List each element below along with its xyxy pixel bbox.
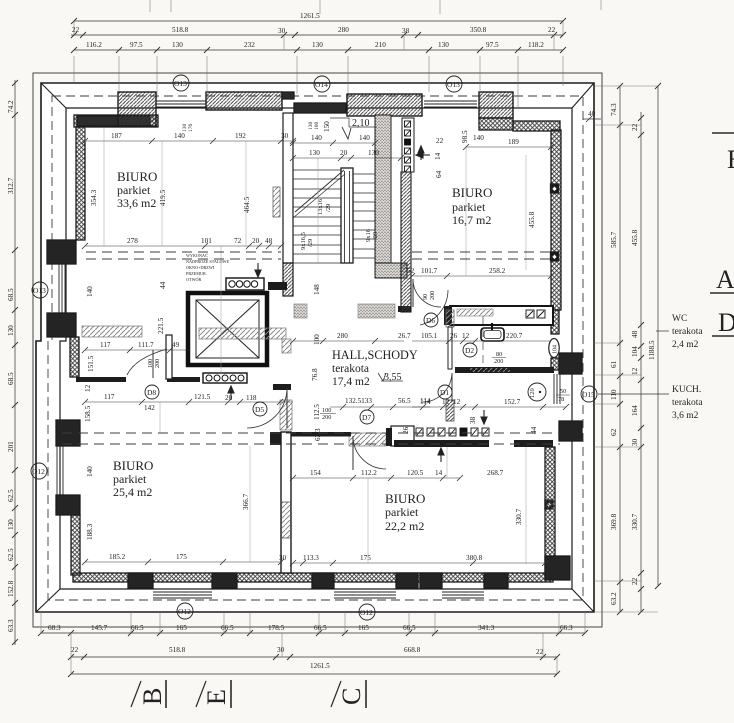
circle O13 left xyxy=(32,282,48,298)
svg-text:terakota: terakota xyxy=(672,398,703,408)
svg-text:165: 165 xyxy=(176,624,187,632)
right wall R2 hatch xyxy=(551,130,561,310)
right extension stubs xyxy=(594,86,658,612)
wall stub east part (under elevator) xyxy=(167,377,200,382)
svg-text:22: 22 xyxy=(436,137,444,145)
right wall anchor dot 3 (R5) xyxy=(545,500,553,509)
wall top of room R2 (hatched) xyxy=(513,121,560,131)
svg-text:38: 38 xyxy=(402,27,410,35)
landing wall gray hatch block xyxy=(294,304,307,318)
svg-text:154: 154 xyxy=(310,469,321,477)
svg-text:63.3: 63.3 xyxy=(7,619,15,632)
hall vertical dashed line xyxy=(482,316,484,367)
divider hatch window block xyxy=(282,502,291,538)
svg-text:BIURO: BIURO xyxy=(113,458,153,473)
svg-text:40: 40 xyxy=(588,110,596,118)
bottom dimension labels xyxy=(48,624,573,670)
svg-text:BIURO: BIURO xyxy=(117,169,157,184)
svg-text:120: 120 xyxy=(529,388,536,398)
svg-text:232: 232 xyxy=(244,41,255,49)
small renovation note text xyxy=(186,253,229,282)
bottom row1 line xyxy=(41,632,585,634)
svg-text:68.5: 68.5 xyxy=(7,288,15,301)
hall south-west wall segment xyxy=(270,432,291,445)
svg-text:105.1: 105.1 xyxy=(421,332,438,340)
svg-text:44: 44 xyxy=(159,281,167,289)
svg-text:O12: O12 xyxy=(178,607,191,616)
circle O13 top-left xyxy=(173,75,189,91)
drawing frame xyxy=(33,73,602,627)
wall above D5 door xyxy=(273,384,291,390)
svg-text:parkiet: parkiet xyxy=(385,505,419,519)
landing south wall stub dark xyxy=(268,282,287,290)
svg-text:1261.5: 1261.5 xyxy=(300,12,320,20)
wall R4/R5 divider xyxy=(281,432,291,573)
svg-text:63.2: 63.2 xyxy=(610,592,618,605)
top-right 40 dim xyxy=(583,110,601,122)
svg-text:68.5: 68.5 xyxy=(7,372,15,385)
stairwell west wall (double line) xyxy=(283,113,293,263)
svg-text:D: D xyxy=(718,308,734,337)
partial letter top xyxy=(712,132,734,134)
svg-text:130: 130 xyxy=(172,41,183,49)
window left W3 glazing xyxy=(59,264,65,313)
circle O15 right xyxy=(581,386,597,402)
svg-text:140: 140 xyxy=(311,134,322,142)
svg-text:80: 80 xyxy=(496,351,502,358)
kitchen west hatch pier xyxy=(446,310,454,327)
svg-text:O14: O14 xyxy=(315,80,328,89)
svg-text:192: 192 xyxy=(235,132,246,140)
stair level mark 2,10 xyxy=(330,118,377,139)
right col3 line xyxy=(657,86,659,586)
svg-text:22: 22 xyxy=(71,646,79,654)
door D5 arc xyxy=(247,388,287,428)
door D8 arc xyxy=(127,349,167,375)
svg-text:1261.5: 1261.5 xyxy=(310,662,330,670)
svg-text:E: E xyxy=(202,689,231,705)
svg-text:158.5: 158.5 xyxy=(84,405,92,422)
top row2 line xyxy=(71,34,563,36)
sill block top-left dark xyxy=(77,116,150,126)
svg-text:152.8: 152.8 xyxy=(7,580,15,597)
svg-text:22: 22 xyxy=(548,26,556,34)
top extension stubs xyxy=(74,0,601,108)
svg-text:WC: WC xyxy=(672,314,687,324)
svg-text:A: A xyxy=(716,265,734,294)
landing wall gray hatch block east xyxy=(358,304,395,318)
svg-text:464.5: 464.5 xyxy=(243,196,251,213)
hall south wall near D7 xyxy=(291,432,351,437)
svg-text:26.7: 26.7 xyxy=(398,332,411,340)
svg-text:PRZEMUR.: PRZEMUR. xyxy=(186,271,207,276)
lintel tiny labels above stairs xyxy=(182,122,320,133)
chimney pier P3 xyxy=(479,92,513,118)
circle O13b top-right xyxy=(446,76,462,92)
svg-text:140: 140 xyxy=(86,286,94,297)
svg-text:90: 90 xyxy=(422,294,429,300)
svg-text:178.5: 178.5 xyxy=(268,624,285,632)
svg-text:118: 118 xyxy=(246,394,257,402)
R2 south wall hatch strip xyxy=(457,309,493,316)
svg-text:D5: D5 xyxy=(255,405,264,414)
svg-text:22: 22 xyxy=(631,577,639,585)
wall top of room R1 (hatched) xyxy=(74,115,158,127)
right wall anchor dot 2 xyxy=(551,252,559,261)
corner miter BL xyxy=(36,589,60,612)
svg-text:O12: O12 xyxy=(360,608,373,617)
svg-text:D6: D6 xyxy=(426,316,435,325)
D7 threshold grey bar xyxy=(349,433,386,446)
right wall anchor dot 1 xyxy=(551,184,559,193)
svg-text:101.7: 101.7 xyxy=(421,267,438,275)
svg-text:312.7: 312.7 xyxy=(7,177,15,194)
svg-text:/29: /29 xyxy=(325,204,332,212)
R2 south wall xyxy=(450,306,553,325)
svg-text:26: 26 xyxy=(450,332,458,340)
washbasin xyxy=(481,328,504,341)
svg-text:200: 200 xyxy=(154,359,161,368)
svg-text:33,6 m2: 33,6 m2 xyxy=(117,196,156,210)
svg-text:22: 22 xyxy=(72,26,80,34)
svg-text:188.3: 188.3 xyxy=(86,523,94,540)
circle O12 bottom-right xyxy=(359,604,375,620)
right col1 line xyxy=(619,86,621,612)
WC label (right margin) xyxy=(672,314,703,350)
left arrow at stair top xyxy=(416,152,430,158)
svg-text:/29: /29 xyxy=(372,232,379,240)
svg-text:118.2: 118.2 xyxy=(528,41,544,49)
right window WR glazing xyxy=(554,374,560,404)
svg-text:518.8: 518.8 xyxy=(172,26,189,34)
svg-text:/29: /29 xyxy=(307,239,314,247)
svg-text:258.2: 258.2 xyxy=(489,267,506,275)
outer wall band: inner edge xyxy=(60,108,572,589)
svg-text:280: 280 xyxy=(337,332,348,340)
svg-text:HALL,SCHODY: HALL,SCHODY xyxy=(332,348,418,362)
hall south dim line xyxy=(330,406,430,408)
KUCH label (right margin) xyxy=(672,385,703,421)
bottom sill blocks xyxy=(128,573,153,588)
svg-text:341.3: 341.3 xyxy=(478,624,495,632)
svg-text:1188.5: 1188.5 xyxy=(648,340,656,360)
radiator strip R1 east wall xyxy=(273,187,280,217)
middle strip dim line xyxy=(85,401,293,403)
right window WR sill lower xyxy=(559,421,582,441)
R2 bottom dim line xyxy=(412,275,551,277)
svg-text:130: 130 xyxy=(438,41,449,49)
svg-text:O13: O13 xyxy=(447,80,460,89)
svg-text:terakota: terakota xyxy=(332,363,369,375)
svg-text:12: 12 xyxy=(631,367,639,375)
svg-text:369.8: 369.8 xyxy=(610,513,618,530)
svg-text:140: 140 xyxy=(473,134,484,142)
svg-text:74.2: 74.2 xyxy=(7,100,15,113)
R5 north wall xyxy=(394,440,553,447)
window left W4 glazing xyxy=(57,446,63,495)
svg-text:66.3: 66.3 xyxy=(560,624,573,632)
svg-text:200: 200 xyxy=(429,291,436,300)
svg-text:52: 52 xyxy=(407,267,415,275)
svg-text:D1: D1 xyxy=(440,388,449,397)
svg-text:30: 30 xyxy=(279,554,287,562)
door D1 arc xyxy=(423,373,452,402)
svg-text:100: 100 xyxy=(314,122,320,131)
svg-text:220.7: 220.7 xyxy=(506,332,523,340)
svg-text:72: 72 xyxy=(234,237,242,245)
stairwell west wall lower extension xyxy=(283,263,293,296)
WC dim line xyxy=(412,340,551,342)
svg-text:189: 189 xyxy=(508,138,519,146)
svg-text:165: 165 xyxy=(358,624,369,632)
svg-text:121.5: 121.5 xyxy=(194,393,211,401)
svg-text:330.7: 330.7 xyxy=(631,513,639,530)
kitchen counter squares row xyxy=(416,428,489,436)
bottom window WB3 glazing xyxy=(442,592,484,598)
left wall mid hatch xyxy=(70,337,79,377)
svg-text:350.8: 350.8 xyxy=(470,26,487,34)
corner miter TR xyxy=(572,83,594,108)
circle D7 xyxy=(360,410,374,424)
svg-text:O15: O15 xyxy=(582,390,595,399)
svg-text:74.3: 74.3 xyxy=(610,103,618,116)
circle D8 xyxy=(145,385,159,399)
grey beam bar across hall xyxy=(199,328,286,339)
down arrow kitchen xyxy=(481,410,487,424)
svg-text:110: 110 xyxy=(610,389,618,400)
circle D6 xyxy=(424,313,438,327)
svg-text:17,4 m2: 17,4 m2 xyxy=(332,376,370,388)
svg-text:22: 22 xyxy=(631,123,639,131)
svg-text:parkiet: parkiet xyxy=(452,200,486,214)
radiator block above elevator xyxy=(226,278,264,290)
left wall bottom hatch xyxy=(71,515,80,575)
svg-text:132.5133: 132.5133 xyxy=(345,397,372,405)
right col2 line xyxy=(640,112,642,612)
grey hatch block at D5 door xyxy=(280,400,292,430)
wall stub south of R1 xyxy=(76,377,126,382)
svg-text:NADPROŻE STALOWE: NADPROŻE STALOWE xyxy=(186,259,229,264)
faint dimension extension lines xyxy=(85,127,526,564)
R1 top dim line xyxy=(85,140,293,142)
door size annotations xyxy=(147,291,570,421)
WC south wall hatch xyxy=(470,368,510,372)
svg-text:354.3: 354.3 xyxy=(90,189,98,206)
svg-text:150: 150 xyxy=(323,121,331,132)
svg-text:E: E xyxy=(727,145,734,174)
svg-text:30: 30 xyxy=(281,132,289,140)
circle D2 xyxy=(463,343,477,357)
svg-text:B: B xyxy=(138,688,167,705)
svg-text:130: 130 xyxy=(7,325,15,336)
elevator shaft outer wall xyxy=(188,293,267,365)
stair treads left flight xyxy=(293,170,341,263)
right window WR sill upper xyxy=(559,353,582,374)
door D2 leaf xyxy=(448,327,452,369)
svg-text:20: 20 xyxy=(252,237,260,245)
circle D5 xyxy=(253,402,267,416)
svg-text:78: 78 xyxy=(558,396,564,403)
top row3 line xyxy=(74,49,563,51)
svg-text:22: 22 xyxy=(536,648,544,656)
svg-text:16,7 m2: 16,7 m2 xyxy=(452,213,491,227)
window left W3 sill upper block xyxy=(47,240,76,264)
svg-text:668.8: 668.8 xyxy=(404,646,421,654)
down arrow R1 note xyxy=(255,263,261,277)
flue squares column wall xyxy=(402,118,414,172)
svg-text:151.5: 151.5 xyxy=(87,355,95,372)
R1 mid dim line xyxy=(85,245,281,247)
svg-text:97.5: 97.5 xyxy=(130,41,143,49)
circle O12 left lower xyxy=(31,463,47,479)
svg-text:200: 200 xyxy=(322,414,331,421)
kitchen west wall xyxy=(391,426,414,446)
stair break line diagonal xyxy=(295,170,344,212)
corner miter BR xyxy=(572,589,594,612)
right wall R5 hatch xyxy=(545,447,555,576)
svg-text:D8: D8 xyxy=(147,388,156,397)
hall level mark 3,55 xyxy=(378,372,403,383)
chimney pier P2 above stairs xyxy=(347,94,422,116)
radiator block below elevator xyxy=(203,373,247,383)
svg-text:380.8: 380.8 xyxy=(466,554,483,562)
door D7 arc xyxy=(353,436,386,469)
stair treads right flight xyxy=(353,174,375,258)
svg-text:120.5: 120.5 xyxy=(407,469,424,477)
window left W3 sill lower block xyxy=(47,313,76,337)
grey beam bar R1 south-west xyxy=(82,326,142,337)
interior rotated dims xyxy=(84,121,538,540)
svg-text:130: 130 xyxy=(368,149,379,157)
svg-text:117: 117 xyxy=(100,341,111,349)
svg-text:9x16,5: 9x16,5 xyxy=(300,232,307,250)
svg-text:3,6 m2: 3,6 m2 xyxy=(672,411,699,421)
door D6 arc (hall to wc lobby) xyxy=(413,279,441,307)
svg-text:112.5: 112.5 xyxy=(313,404,321,420)
svg-text:14: 14 xyxy=(435,469,443,477)
wall above stairs (dark strip) xyxy=(294,103,346,113)
svg-text:268.7: 268.7 xyxy=(487,469,504,477)
R5 bottom dim line xyxy=(293,562,545,564)
svg-text:D2: D2 xyxy=(465,346,474,355)
svg-text:140: 140 xyxy=(359,134,370,142)
svg-text:62.5: 62.5 xyxy=(7,548,15,561)
svg-text:25,4 m2: 25,4 m2 xyxy=(113,485,152,499)
R2 south wall flue squares xyxy=(526,310,545,318)
svg-text:455.8: 455.8 xyxy=(528,211,536,228)
svg-text:C: C xyxy=(337,688,366,705)
svg-text:97.5: 97.5 xyxy=(486,41,499,49)
left wall upper hatch (R1 west) xyxy=(76,127,85,240)
svg-text:56.5: 56.5 xyxy=(398,397,411,405)
WC west wall end cap xyxy=(398,306,411,312)
circle column 120 xyxy=(528,383,546,401)
svg-text:187: 187 xyxy=(111,132,122,140)
pier P3 lower hatch xyxy=(479,118,513,130)
svg-text:62.5: 62.5 xyxy=(7,489,15,502)
svg-text:117: 117 xyxy=(104,393,115,401)
R2 top dim line xyxy=(466,146,551,148)
svg-text:100: 100 xyxy=(322,407,331,414)
svg-text:176: 176 xyxy=(188,124,194,133)
svg-text:142: 142 xyxy=(144,404,155,412)
svg-text:OKNO+DRZWI: OKNO+DRZWI xyxy=(186,265,215,270)
stairs dim line2 xyxy=(293,157,404,159)
elevator X diagonals xyxy=(196,300,259,358)
right wall R5 corner block xyxy=(545,556,570,580)
svg-text:20: 20 xyxy=(340,149,348,157)
stair stipple corner block xyxy=(375,263,407,278)
svg-text:585.7: 585.7 xyxy=(610,231,618,248)
axis dashed line in band xyxy=(48,96,583,600)
svg-text:63.3: 63.3 xyxy=(314,428,322,441)
svg-text:148: 148 xyxy=(313,284,321,295)
chimney pier P1b xyxy=(206,92,282,110)
svg-text:111.7: 111.7 xyxy=(138,341,154,349)
svg-text:66.5: 66.5 xyxy=(314,624,327,632)
circle O14 top xyxy=(314,76,330,92)
svg-text:152.7: 152.7 xyxy=(504,398,521,406)
R4 bottom dim line xyxy=(85,561,281,563)
svg-text:330.7: 330.7 xyxy=(515,508,523,525)
svg-text:100: 100 xyxy=(313,334,321,345)
R1 south dim line xyxy=(85,349,190,351)
top row1 line 1261.5 xyxy=(74,20,563,22)
bottom row3 line 1261.5 xyxy=(71,673,557,675)
window top W2 glazing xyxy=(424,101,477,107)
svg-text:201: 201 xyxy=(7,441,15,452)
left dimension labels (rotated) xyxy=(7,100,15,632)
svg-text:50: 50 xyxy=(560,388,566,395)
window top W1 glazing xyxy=(156,101,206,107)
svg-text:66.5: 66.5 xyxy=(221,624,234,632)
toilet xyxy=(549,339,559,358)
svg-text:12: 12 xyxy=(462,332,470,340)
kitchen west wall dark jamb xyxy=(386,428,392,446)
svg-text:O13: O13 xyxy=(174,79,187,88)
svg-text:parkiet: parkiet xyxy=(117,183,151,197)
left wall lower hatch above window W4 xyxy=(56,420,80,446)
svg-text:OTWÓR: OTWÓR xyxy=(186,277,202,282)
stair center rail (double) xyxy=(341,168,353,263)
right wall WC hatch lower xyxy=(551,358,559,370)
svg-text:164: 164 xyxy=(631,405,639,416)
svg-text:419.5: 419.5 xyxy=(159,189,167,206)
svg-text:278: 278 xyxy=(127,237,138,245)
svg-text:30: 30 xyxy=(631,438,639,446)
svg-text:210: 210 xyxy=(375,41,386,49)
svg-text:455.8: 455.8 xyxy=(631,229,639,246)
svg-text:parkiet: parkiet xyxy=(113,472,147,486)
svg-text:98.5: 98.5 xyxy=(461,130,469,143)
svg-text:145.7: 145.7 xyxy=(91,624,108,632)
KUCH dim line xyxy=(412,406,566,408)
WC west wall (diag hatch band) xyxy=(401,172,411,312)
svg-text:130: 130 xyxy=(309,149,320,157)
svg-text:185.2: 185.2 xyxy=(109,553,126,561)
hall dim line xyxy=(293,340,404,342)
elevator cab xyxy=(196,300,259,358)
right dimension labels (rotated) xyxy=(610,103,656,605)
svg-text:49: 49 xyxy=(172,341,180,349)
svg-text:175: 175 xyxy=(176,553,187,561)
right wall WC hatch upper xyxy=(551,310,559,334)
circle D1 xyxy=(438,385,452,399)
svg-text:221.5: 221.5 xyxy=(157,317,165,334)
circle O12 bottom-left xyxy=(177,603,193,619)
svg-text:175: 175 xyxy=(360,554,371,562)
KUCH leader line xyxy=(598,393,669,395)
